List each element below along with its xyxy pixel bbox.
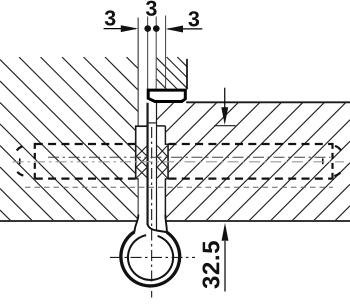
dimension line left bbox=[104, 28, 136, 30]
sleeve bulge left wall bbox=[135, 126, 137, 179]
pocket bottom tick left bbox=[135, 125, 148, 127]
extension line x=147.7 bbox=[147, 17, 149, 90]
hidden hole bottom dashed bbox=[25, 186, 333, 188]
hidden sleeve top edge (dashed) bbox=[35, 143, 135, 145]
hidden sleeve right cap bbox=[331, 143, 333, 180]
thread marks right wall bbox=[157, 146, 167, 178]
label 3 middle bbox=[146, 1, 157, 16]
screw axis center line gray bbox=[13, 161, 345, 163]
bulge bottom step right bbox=[165, 178, 169, 180]
panel bottom edge right bbox=[166, 220, 350, 222]
arrowhead right-pointing bbox=[121, 25, 138, 32]
thread marks left wall bbox=[136, 146, 147, 178]
hidden sleeve bottom edge right part bbox=[169, 177, 333, 179]
panel bottom edge left bbox=[0, 220, 137, 222]
sleeve bore left wall (thick) bbox=[146, 103, 148, 225]
knuckle horizontal center line bbox=[110, 256, 195, 258]
reference tick at leaf seat bbox=[214, 125, 235, 127]
sleeve bulge right wall bbox=[167, 144, 169, 179]
hidden cone tip right bbox=[334, 146, 341, 176]
dimension dot 1 bbox=[144, 25, 151, 32]
hidden sleeve bottom edge (dashed) bbox=[35, 177, 135, 179]
frame rebate step bbox=[157, 125, 166, 127]
sleeve outer right wall bbox=[164, 126, 166, 145]
door tongue right edge bbox=[186, 59, 188, 89]
arrowhead left-pointing bbox=[166, 26, 183, 33]
hidden sleeve top edge right part bbox=[169, 143, 333, 145]
label 3 left bbox=[105, 10, 116, 25]
frame hatching right bbox=[156, 103, 350, 221]
vertical center line bbox=[151, 127, 153, 298]
hidden sleeve left cap bbox=[34, 143, 36, 180]
label 32.5 (rotated) bbox=[202, 241, 219, 288]
screw axis center line bbox=[48, 156, 331, 158]
frame face / bore right wall bbox=[156, 103, 158, 231]
knuckle inner ring bbox=[128, 235, 173, 280]
bulge top step right bbox=[165, 143, 169, 145]
dimension line right bbox=[168, 28, 203, 30]
extension line x=165.6 bbox=[165, 16, 167, 90]
pin bottom inside bore bbox=[149, 122, 156, 124]
extension line x=156.2 bbox=[155, 17, 157, 90]
neck flare right bbox=[165, 215, 167, 233]
dimension dot 2 bbox=[153, 25, 160, 32]
frame top surface edge bbox=[186, 101, 350, 103]
down arrow to leaf seat bbox=[224, 88, 226, 110]
extension line + door edge x=138 bbox=[137, 18, 139, 127]
door tongue hatching above hinge leaf bbox=[157, 57, 187, 89]
hinge leaf flange bbox=[148, 90, 185, 101]
center cross tick right bbox=[322, 158, 324, 164]
door edge lower segment bbox=[137, 179, 139, 217]
knuckle outer ring bbox=[121, 232, 180, 286]
neck flare left bbox=[135, 215, 139, 232]
label 3 right bbox=[188, 11, 199, 26]
dimension line 32.5 bbox=[224, 241, 226, 292]
bore opening sweep into barrel bbox=[148, 224, 167, 232]
sleeve outer right wall lower bbox=[164, 179, 166, 217]
hidden cone tip left bbox=[17, 146, 24, 175]
center cross tick left bbox=[19, 158, 21, 164]
bulge bottom step left bbox=[135, 178, 139, 180]
